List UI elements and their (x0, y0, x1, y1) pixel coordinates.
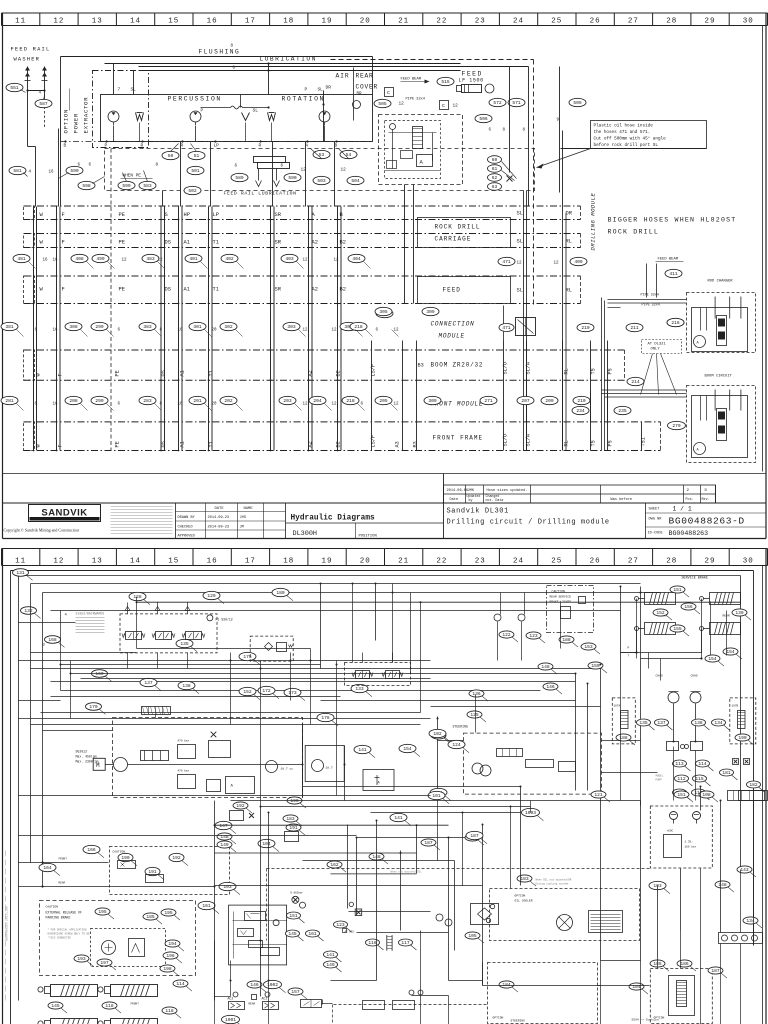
svg-text:152: 152 (243, 689, 252, 695)
svg-text:FEED RAIL: FEED RAIL (11, 47, 51, 53)
svg-text:DR: DR (566, 211, 573, 217)
svg-text:Was before: Was before (611, 497, 633, 502)
svg-text:161: 161 (202, 903, 211, 909)
svg-text:RL: RL (564, 368, 570, 374)
svg-text:309: 309 (426, 309, 435, 315)
svg-text:2014-09-23: 2014-09-23 (208, 526, 230, 530)
svg-text:PIPE 32x4: PIPE 32x4 (641, 294, 659, 298)
svg-text:186: 186 (680, 961, 689, 967)
svg-text:181: 181 (722, 770, 731, 776)
svg-text:123: 123 (336, 922, 345, 928)
svg-text:218: 218 (354, 324, 363, 330)
svg-text:DATE: DATE (215, 507, 225, 511)
svg-text:589: 589 (235, 175, 244, 181)
svg-text:112: 112 (677, 776, 686, 782)
svg-text:Copyright © Sandvik Mining and: Copyright © Sandvik Mining and Construct… (4, 528, 80, 533)
svg-text:26: 26 (590, 17, 601, 25)
svg-text:SL: SL (517, 288, 523, 294)
svg-text:170: 170 (89, 704, 98, 710)
svg-text:20: 20 (360, 17, 371, 25)
svg-text:190: 190 (738, 735, 747, 741)
svg-text:1001: 1001 (225, 1017, 236, 1023)
svg-text:21: 21 (398, 17, 409, 25)
svg-text:When not mounted OIL: When not mounted OIL (391, 870, 423, 874)
svg-text:148: 148 (541, 664, 550, 670)
svg-text:214: 214 (631, 379, 640, 385)
svg-text:2014-06-06: 2014-06-06 (447, 489, 469, 493)
svg-text:BIGGER HOSES WHEN HL820ST: BIGGER HOSES WHEN HL820ST (608, 217, 737, 224)
svg-text:B3: B3 (418, 363, 424, 369)
svg-text:20: 20 (212, 329, 218, 333)
svg-text:19: 19 (321, 557, 332, 565)
svg-text:FRONT: FRONT (59, 858, 68, 861)
svg-text:DS: DS (165, 287, 171, 293)
svg-text:PERCUSSION: PERCUSSION (168, 96, 222, 103)
svg-text:P5: P5 (608, 440, 614, 446)
svg-text:135: 135 (639, 720, 648, 726)
svg-text:62: 62 (492, 175, 498, 181)
svg-text:PE: PE (115, 370, 121, 376)
svg-text:B2: B2 (340, 287, 346, 293)
svg-text:SR: SR (275, 287, 282, 293)
svg-text:A1: A1 (180, 441, 186, 447)
svg-text:30: 30 (743, 557, 754, 565)
svg-text:Pos.: Pos. (686, 498, 694, 502)
svg-text:402: 402 (225, 256, 234, 262)
svg-text:P1 S30/12: P1 S30/12 (216, 618, 233, 622)
svg-text:AC 002: AC 002 (345, 931, 355, 934)
svg-text:118: 118 (105, 1003, 114, 1009)
svg-text:138: 138 (182, 683, 191, 689)
svg-text:156: 156 (684, 604, 693, 610)
svg-text:184: 184 (502, 982, 511, 988)
svg-text:195: 195 (98, 909, 107, 915)
svg-text:Sandvik DL301: Sandvik DL301 (447, 508, 509, 516)
svg-text:113: 113 (675, 761, 684, 767)
svg-text:141: 141 (394, 815, 403, 821)
svg-text:RL: RL (566, 239, 572, 245)
svg-text:154: 154 (403, 746, 412, 752)
svg-text:CARRIAGE: CARRIAGE (435, 236, 472, 243)
svg-text:234: 234 (576, 408, 585, 414)
svg-text:S1853/BACKWARDS: S1853/BACKWARDS (76, 612, 105, 616)
svg-text:16: 16 (207, 557, 218, 565)
svg-text:133: 133 (355, 686, 364, 692)
svg-text:141: 141 (326, 952, 335, 958)
svg-text:408: 408 (75, 256, 84, 262)
svg-text:EXTERNAL RELEASE OF: EXTERNAL RELEASE OF (46, 911, 82, 915)
svg-text:139: 139 (735, 610, 744, 616)
svg-text:551: 551 (10, 85, 19, 91)
svg-text:FRONT: FRONT (131, 1003, 140, 1006)
svg-text:53: 53 (319, 152, 325, 158)
svg-text:FEED BEAM: FEED BEAM (401, 78, 422, 82)
svg-text:184: 184 (632, 984, 641, 990)
svg-text:C: C (442, 103, 445, 109)
svg-text:P: P (105, 144, 108, 149)
svg-text:ONLY: ONLY (651, 348, 661, 352)
svg-text:218: 218 (346, 398, 355, 404)
svg-text:20: 20 (212, 403, 218, 407)
svg-text:18: 18 (283, 557, 294, 565)
svg-text:191: 191 (289, 825, 298, 831)
svg-text:590: 590 (70, 168, 79, 174)
svg-text:146: 146 (546, 684, 555, 690)
svg-text:107B: 107B (732, 705, 739, 708)
svg-text:E-802bar: E-802bar (291, 891, 304, 895)
svg-text:172: 172 (262, 688, 271, 694)
svg-text:RL: RL (566, 288, 572, 294)
svg-text:151: 151 (673, 587, 682, 593)
svg-text:180: 180 (276, 590, 285, 596)
svg-text:19: 19 (321, 17, 332, 25)
svg-text:SG2012: SG2012 (76, 750, 88, 754)
svg-text:SL: SL (318, 88, 324, 93)
svg-text:209: 209 (545, 398, 554, 404)
svg-text:PE: PE (119, 212, 125, 218)
svg-text:154: 154 (726, 649, 735, 655)
svg-text:A3: A3 (395, 441, 401, 447)
svg-text:194: 194 (168, 941, 177, 947)
svg-text:108: 108 (702, 792, 711, 798)
svg-text:AT DL321: AT DL321 (648, 343, 667, 347)
svg-text:599: 599 (122, 183, 131, 189)
svg-text:B3: B3 (413, 441, 419, 447)
svg-text:before rock drill port SL: before rock drill port SL (594, 143, 659, 148)
svg-text:137: 137 (144, 680, 153, 686)
svg-text:193: 193 (77, 956, 86, 962)
svg-text:198: 198 (163, 966, 172, 972)
svg-text:R: R (259, 144, 262, 149)
svg-text:OPTION: OPTION (63, 109, 70, 133)
svg-text:14: 14 (130, 557, 141, 565)
svg-text:192: 192 (236, 803, 245, 809)
svg-text:183: 183 (286, 816, 295, 822)
svg-text:129: 129 (207, 593, 216, 599)
svg-text:509: 509 (573, 100, 582, 106)
svg-text:OVERRIDING SCREW ONLY TO BE: OVERRIDING SCREW ONLY TO BE (48, 933, 90, 936)
svg-text:BOOM ZR20/32: BOOM ZR20/32 (431, 362, 484, 369)
svg-text:T1: T1 (213, 287, 219, 293)
svg-text:16: 16 (49, 171, 55, 175)
svg-text:B: B (335, 144, 338, 149)
svg-text:145: 145 (51, 1003, 60, 1009)
svg-text:587: 587 (39, 101, 48, 107)
svg-text:12: 12 (332, 329, 338, 333)
svg-text:168: 168 (48, 637, 57, 643)
svg-text:P: P (305, 88, 308, 93)
svg-text:A1: A1 (184, 287, 190, 293)
svg-text:16: 16 (178, 403, 184, 407)
svg-text:S: S (165, 212, 168, 218)
svg-text:PE: PE (119, 240, 125, 246)
svg-text:23: 23 (475, 557, 486, 565)
svg-text:155: 155 (673, 626, 682, 632)
svg-text:105: 105 (468, 933, 477, 939)
svg-text:5504 -> Suction: 5504 -> Suction (632, 1018, 659, 1022)
svg-text:271: 271 (484, 398, 493, 404)
svg-text:204: 204 (313, 398, 322, 404)
svg-text:138: 138 (694, 720, 703, 726)
svg-text:299: 299 (95, 398, 104, 404)
svg-text:A1: A1 (184, 240, 190, 246)
svg-text:187: 187 (424, 840, 433, 846)
svg-text:124: 124 (452, 742, 461, 748)
svg-text:471: 471 (502, 259, 511, 265)
svg-text:OPTION: OPTION (515, 895, 526, 898)
svg-text:F: F (58, 373, 64, 376)
svg-text:11: 11 (15, 17, 26, 25)
svg-text:APPROVED: APPROVED (178, 535, 195, 539)
svg-text:PIPE 32x4: PIPE 32x4 (406, 98, 425, 102)
svg-text:P: P (628, 647, 630, 650)
svg-text:154: 154 (708, 656, 717, 662)
svg-text:50: 50 (168, 153, 174, 159)
svg-text:302: 302 (224, 324, 233, 330)
svg-text:12: 12 (158, 259, 164, 263)
svg-text:23: 23 (475, 17, 486, 25)
svg-text:148: 148 (718, 882, 727, 888)
svg-text:12: 12 (122, 259, 128, 263)
svg-text:SR: SR (275, 212, 282, 218)
svg-text:148: 148 (220, 834, 229, 840)
svg-text:**DIS CONNECTED: **DIS CONNECTED (48, 936, 72, 940)
svg-text:197: 197 (100, 960, 109, 966)
svg-text:409: 409 (574, 259, 583, 265)
svg-text:16: 16 (53, 403, 59, 407)
svg-text:MODULE: MODULE (439, 333, 465, 340)
svg-text:CHAS: CHAS (656, 675, 663, 678)
svg-text:24: 24 (513, 557, 524, 565)
svg-text:Drilling circuit / Drilling mo: Drilling circuit / Drilling module (447, 519, 610, 527)
svg-text:63: 63 (492, 184, 498, 190)
svg-text:DRAWN BY: DRAWN BY (178, 516, 196, 520)
svg-text:LUBRICATION: LUBRICATION (260, 56, 317, 63)
svg-text:12: 12 (394, 403, 400, 407)
svg-text:P5: P5 (608, 368, 614, 374)
svg-text:DR: DR (326, 85, 332, 91)
svg-text:11: 11 (15, 557, 26, 565)
svg-text:RL: RL (564, 440, 570, 446)
svg-text:160 bar: 160 bar (685, 845, 697, 849)
svg-text:481: 481 (17, 256, 26, 262)
svg-text:OIL COOLER: OIL COOLER (515, 900, 533, 903)
svg-text:299: 299 (95, 324, 104, 330)
svg-text:T5: T5 (591, 368, 597, 374)
svg-text:383: 383 (143, 324, 152, 330)
svg-text:T5: T5 (591, 440, 597, 446)
svg-text:13: 13 (92, 557, 103, 565)
svg-text:28: 28 (666, 557, 677, 565)
svg-text:12: 12 (453, 104, 459, 109)
svg-text:164: 164 (43, 865, 52, 871)
svg-text:117: 117 (401, 940, 410, 946)
svg-text:26: 26 (590, 557, 601, 565)
svg-text:27: 27 (628, 17, 639, 25)
svg-text:103: 103 (223, 884, 232, 890)
svg-text:DRILLING MODULE: DRILLING MODULE (590, 193, 597, 251)
svg-text:12: 12 (53, 17, 64, 25)
svg-text:NAME: NAME (244, 507, 254, 511)
svg-text:141: 141 (358, 747, 367, 753)
svg-text:61: 61 (492, 166, 498, 172)
svg-text:185: 185 (146, 914, 155, 920)
svg-text:470 bar: 470 bar (178, 769, 190, 773)
svg-text:FEED BEAM: FEED BEAM (658, 258, 679, 262)
svg-text:JHS: JHS (240, 516, 246, 520)
svg-text:CHAS: CHAS (691, 675, 698, 678)
svg-text:149: 149 (326, 962, 335, 968)
svg-text:12: 12 (303, 329, 309, 333)
svg-text:403: 403 (285, 256, 294, 262)
svg-text:22: 22 (436, 557, 447, 565)
svg-text:114: 114 (176, 981, 185, 987)
svg-text:ROCK DRILL: ROCK DRILL (608, 229, 660, 236)
svg-text:153: 153 (584, 644, 593, 650)
svg-text:FEED: FEED (443, 287, 461, 294)
svg-text:B2: B2 (340, 240, 346, 246)
svg-text:C: C (387, 90, 390, 96)
svg-text:114: 114 (698, 761, 707, 767)
svg-text:211: 211 (630, 325, 639, 331)
svg-text:152: 152 (656, 610, 665, 616)
svg-text:146: 146 (250, 982, 259, 988)
svg-text:169: 169 (95, 671, 104, 677)
svg-text:572: 572 (493, 100, 502, 106)
svg-text:DWG NR: DWG NR (649, 518, 663, 522)
svg-text:150: 150 (591, 663, 600, 669)
svg-text:12: 12 (341, 168, 347, 173)
svg-text:116: 116 (368, 940, 377, 946)
svg-text:F: F (62, 212, 65, 218)
svg-text:EXTRACTOR: EXTRACTOR (83, 97, 90, 134)
svg-text:207: 207 (521, 398, 530, 404)
svg-text:506: 506 (479, 116, 488, 122)
svg-text:F: F (62, 240, 65, 246)
svg-text:12: 12 (517, 262, 523, 266)
svg-text:ROD CHANGER: ROD CHANGER (708, 280, 734, 284)
svg-text:12: 12 (303, 403, 309, 407)
svg-text:F: F (62, 287, 65, 293)
svg-text:A1: A1 (180, 370, 186, 376)
svg-text:283: 283 (143, 398, 152, 404)
svg-text:17: 17 (245, 557, 256, 565)
svg-text:JM: JM (240, 526, 244, 530)
svg-text:471: 471 (502, 325, 511, 331)
svg-text:Hose sizes updated.: Hose sizes updated. (487, 488, 528, 493)
svg-text:Max. 450lpm: Max. 450lpm (76, 755, 97, 759)
svg-text:128: 128 (133, 594, 142, 600)
svg-text:FEED: FEED (462, 71, 483, 78)
svg-text:483: 483 (146, 256, 155, 262)
svg-text:BG00488263 DRILLING: BG00488263 DRILLING (6, 906, 9, 940)
svg-text:178: 178 (321, 715, 330, 721)
svg-text:210: 210 (577, 398, 586, 404)
svg-text:161: 161 (308, 931, 317, 937)
svg-text:305: 305 (379, 309, 388, 315)
svg-text:B: B (64, 144, 67, 149)
svg-text:192: 192 (172, 855, 181, 861)
svg-text:Date: Date (450, 498, 459, 502)
svg-text:145: 145 (288, 931, 297, 937)
svg-text:ID-CODE: ID-CODE (648, 532, 663, 536)
svg-text:235: 235 (618, 408, 627, 414)
svg-text:12: 12 (399, 102, 405, 107)
svg-text:AIR: AIR (336, 73, 350, 80)
svg-text:REAR: REAR (249, 1003, 256, 1006)
svg-text:T: T (628, 655, 630, 658)
svg-text:+60C: +60C (667, 830, 674, 833)
svg-text:12: 12 (554, 262, 560, 266)
svg-text:143: 143 (740, 867, 749, 873)
svg-text:107A: 107A (614, 705, 621, 708)
svg-text:201: 201 (193, 398, 202, 404)
svg-text:571: 571 (512, 100, 521, 106)
svg-text:CONNECTION: CONNECTION (431, 321, 475, 328)
svg-text:187: 187 (711, 968, 720, 974)
svg-text:Plastic oil hose inside: Plastic oil hose inside (594, 124, 654, 129)
svg-text:187: 187 (470, 833, 479, 839)
svg-text:2014-09-23: 2014-09-23 (208, 516, 230, 520)
svg-text:101: 101 (432, 793, 441, 799)
svg-text:During cooling system: During cooling system (536, 882, 569, 886)
svg-text:60: 60 (492, 157, 498, 163)
svg-text:FEED RAIL LUBRICATION: FEED RAIL LUBRICATION (224, 191, 297, 197)
svg-text:270: 270 (672, 423, 681, 429)
svg-text:22: 22 (436, 17, 447, 25)
svg-text:ROCK DRILL: ROCK DRILL (435, 224, 481, 231)
svg-text:411: 411 (669, 271, 678, 277)
svg-text:28: 28 (666, 17, 677, 25)
svg-text:LF 1500: LF 1500 (459, 78, 484, 84)
svg-text:STEERING: STEERING (511, 1020, 526, 1023)
svg-text:PARKING BRAKE: PARKING BRAKE (46, 916, 71, 920)
svg-text:T1: T1 (213, 240, 219, 246)
svg-text:REAR SERVICE: REAR SERVICE (550, 596, 572, 599)
svg-text:16: 16 (53, 329, 59, 333)
svg-text:210: 210 (581, 325, 590, 331)
svg-text:151: 151 (289, 913, 298, 919)
svg-text:21: 21 (398, 557, 409, 565)
svg-text:303: 303 (287, 324, 296, 330)
svg-text:202: 202 (224, 398, 233, 404)
svg-text:505: 505 (378, 101, 387, 107)
svg-text:FRONT FRAME: FRONT FRAME (433, 435, 484, 442)
svg-text:590: 590 (288, 175, 297, 181)
svg-text:WHEN PE: WHEN PE (123, 174, 142, 179)
svg-text:205: 205 (379, 398, 388, 404)
svg-text:27: 27 (628, 557, 639, 565)
svg-text:17: 17 (245, 17, 256, 25)
svg-text:25: 25 (551, 17, 562, 25)
svg-text:BG00488263-D: BG00488263-D (669, 516, 745, 527)
svg-text:SERVICE BRAKE: SERVICE BRAKE (682, 577, 708, 581)
svg-text:25: 25 (551, 557, 562, 565)
svg-text:16: 16 (207, 17, 218, 25)
svg-text:15: 15 (168, 557, 179, 565)
svg-text:404: 404 (352, 256, 361, 262)
svg-text:Rev.: Rev. (702, 498, 710, 502)
svg-text:12: 12 (332, 403, 338, 407)
svg-text:CAUTION: CAUTION (552, 590, 565, 594)
svg-text:309: 309 (428, 398, 437, 404)
svg-text:16: 16 (178, 329, 184, 333)
svg-text:R: R (141, 144, 144, 149)
svg-text:18.7 cc: 18.7 cc (281, 768, 294, 771)
svg-text:147: 147 (219, 823, 228, 829)
svg-text:12: 12 (303, 259, 309, 263)
svg-text:CAUTION: CAUTION (113, 851, 126, 854)
